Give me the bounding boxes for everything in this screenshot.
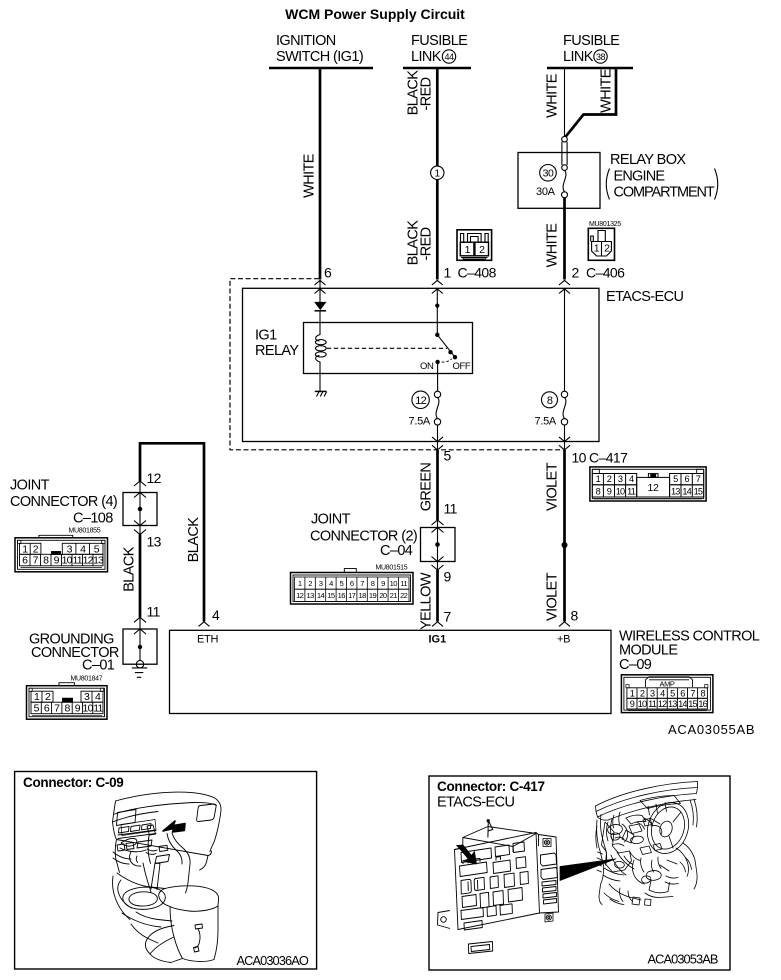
svg-text:ETACS-ECU: ETACS-ECU <box>606 289 683 305</box>
connector C-408 icon <box>457 230 492 260</box>
svg-text:10: 10 <box>572 450 587 466</box>
svg-text:8: 8 <box>371 579 375 588</box>
svg-text:44: 44 <box>444 52 454 62</box>
svg-text:8: 8 <box>596 487 601 497</box>
svg-text:4: 4 <box>629 474 634 484</box>
svg-text:AMP: AMP <box>659 679 674 688</box>
connector C-406 icon <box>588 228 614 260</box>
svg-text:21: 21 <box>390 591 398 600</box>
IG1 relay box <box>304 323 473 374</box>
wire bus bar IG1 <box>269 67 373 69</box>
svg-text:12: 12 <box>658 699 667 709</box>
svg-text:30: 30 <box>543 168 554 180</box>
svg-text:12: 12 <box>415 395 426 407</box>
svg-text:GREEN: GREEN <box>419 463 435 512</box>
svg-text:WCM Power Supply Circuit: WCM Power Supply Circuit <box>285 6 465 22</box>
svg-text:ACA03053AB: ACA03053AB <box>648 952 718 967</box>
fuse 30A <box>540 165 557 182</box>
svg-text:18: 18 <box>358 591 366 600</box>
svg-text:9: 9 <box>444 569 452 585</box>
svg-text:8: 8 <box>547 395 553 407</box>
svg-text:+B: +B <box>557 634 570 646</box>
svg-text:11: 11 <box>444 501 458 517</box>
panel Connector C-09 <box>15 772 317 970</box>
chevron end wire8 <box>559 622 570 627</box>
svg-text:12: 12 <box>296 591 304 600</box>
svg-text:1: 1 <box>596 474 601 484</box>
node circled 1 <box>431 166 444 179</box>
chevrons exiting box bottom wire10 <box>559 437 570 442</box>
svg-text:BLACK: BLACK <box>121 546 137 591</box>
svg-text:9: 9 <box>607 487 612 497</box>
chevron crossing wire6 at box top <box>315 289 326 294</box>
svg-text:ENGINE: ENGINE <box>614 169 666 185</box>
svg-text:VIOLET: VIOLET <box>544 572 560 621</box>
chevron crossing wire1 at dashed line <box>432 280 443 285</box>
svg-text:6: 6 <box>324 265 332 281</box>
fusible link symbol <box>562 136 568 142</box>
chevron crossing wire1 at box top <box>432 289 443 294</box>
svg-text:C–108: C–108 <box>73 511 113 527</box>
svg-text:10: 10 <box>638 699 647 709</box>
svg-text:14: 14 <box>317 591 325 600</box>
svg-text:WHITE: WHITE <box>544 223 560 268</box>
svg-text:7: 7 <box>360 579 364 588</box>
svg-text:LINK: LINK <box>563 49 594 65</box>
ground symbol <box>136 661 143 668</box>
svg-text:C–01: C–01 <box>82 658 115 674</box>
chevron end wire7 <box>432 622 443 627</box>
chevron crossing wire2 at dashed line <box>559 280 570 285</box>
svg-text:12: 12 <box>647 482 659 494</box>
svg-text:10: 10 <box>83 703 94 715</box>
svg-text:4: 4 <box>329 579 333 588</box>
wire bus bar FL44 <box>403 67 471 69</box>
svg-text:38: 38 <box>596 52 606 62</box>
svg-text:C–04: C–04 <box>380 543 413 559</box>
svg-text:16: 16 <box>698 699 707 709</box>
ETACS dashed boundary <box>230 279 563 450</box>
svg-text:ETH: ETH <box>197 634 218 646</box>
WCM box <box>170 630 612 713</box>
chevron crossing wire2 at box top <box>559 289 570 294</box>
svg-text:-RED: -RED <box>418 227 434 260</box>
wire VIOLET pin10 down <box>563 450 566 622</box>
svg-text:12: 12 <box>83 555 94 567</box>
svg-text:9: 9 <box>381 579 385 588</box>
svg-text:MU801515: MU801515 <box>376 565 408 572</box>
svg-text:5: 5 <box>670 688 675 698</box>
joint connector C-04 box <box>421 528 456 562</box>
svg-text:IGNITION: IGNITION <box>276 33 336 49</box>
connector C-108 icon <box>15 535 108 572</box>
svg-text:4: 4 <box>212 607 220 623</box>
svg-text:13: 13 <box>147 534 162 550</box>
chevron end wire4 <box>199 622 210 627</box>
svg-text:ACA03055AB: ACA03055AB <box>668 722 755 737</box>
svg-text:14: 14 <box>678 699 687 709</box>
svg-text:6: 6 <box>680 688 685 698</box>
svg-text:JOINT: JOINT <box>311 512 351 528</box>
svg-text:WHITE: WHITE <box>544 73 560 118</box>
svg-text:7: 7 <box>696 474 701 484</box>
svg-text:ETACS-ECU: ETACS-ECU <box>437 795 514 811</box>
svg-text:1: 1 <box>444 265 452 281</box>
svg-text:C–408: C–408 <box>458 265 497 281</box>
svg-text:WHITE: WHITE <box>598 68 614 113</box>
svg-text:7.5A: 7.5A <box>535 416 557 428</box>
grounding connector box <box>123 629 157 664</box>
svg-text:19: 19 <box>369 591 377 600</box>
svg-text:16: 16 <box>338 591 346 600</box>
svg-text:VIOLET: VIOLET <box>544 462 560 511</box>
svg-text:1: 1 <box>435 169 441 180</box>
relay coil <box>316 323 320 342</box>
svg-text:ON: ON <box>420 361 434 372</box>
panel Connector C-417 <box>429 776 730 970</box>
relay box (engine compartment) <box>518 153 600 209</box>
wire WHITE from ignition switch <box>319 68 322 280</box>
wire from relay ON to fuse 12 <box>437 362 439 391</box>
svg-text:11: 11 <box>93 703 103 715</box>
svg-text:3: 3 <box>319 579 323 588</box>
svg-text:WHITE: WHITE <box>301 153 317 198</box>
svg-text:15: 15 <box>688 699 697 709</box>
svg-text:8: 8 <box>700 688 705 698</box>
fuse 12 7.5A <box>434 391 440 397</box>
svg-text:MU801855: MU801855 <box>69 528 101 535</box>
svg-text:IG1: IG1 <box>429 634 447 646</box>
svg-text:10: 10 <box>62 555 73 567</box>
connector C-01 icon <box>27 683 108 720</box>
svg-text:ACA03036AO: ACA03036AO <box>237 953 309 968</box>
wire WHITE thin from fusible link 38 <box>564 68 566 136</box>
svg-text:11: 11 <box>400 579 407 588</box>
svg-text:6: 6 <box>684 474 689 484</box>
svg-text:11: 11 <box>627 487 636 497</box>
connector C-04 icon <box>291 569 414 605</box>
svg-text:7: 7 <box>444 609 452 625</box>
svg-text:1: 1 <box>298 579 302 588</box>
svg-text:RELAY BOX: RELAY BOX <box>610 152 686 168</box>
svg-text:2: 2 <box>640 688 645 698</box>
svg-text:8: 8 <box>571 608 579 624</box>
junction dot on violet wire <box>562 542 568 548</box>
svg-text:-RED: -RED <box>418 77 434 110</box>
chevron into grounding connector <box>134 617 146 622</box>
svg-text:C–09: C–09 <box>619 657 652 673</box>
svg-text:IG1: IG1 <box>255 328 277 344</box>
svg-text:22: 22 <box>400 591 408 600</box>
svg-text:14: 14 <box>682 487 691 497</box>
svg-text:4: 4 <box>660 688 665 698</box>
svg-text:6: 6 <box>350 579 354 588</box>
svg-text:17: 17 <box>348 591 356 600</box>
wire inside ECU from pin6 <box>319 280 321 302</box>
wire BLACK-RED from fusible link 44 <box>436 68 439 280</box>
svg-text:Connector: C-417: Connector: C-417 <box>437 779 545 794</box>
chevron into C-04 <box>432 520 444 525</box>
chevron out of C-04 <box>432 557 444 562</box>
svg-text:3: 3 <box>650 688 655 698</box>
joint connector C-108 box <box>123 493 157 526</box>
svg-text:12: 12 <box>147 470 162 486</box>
svg-text:OFF: OFF <box>453 361 471 372</box>
svg-text:2: 2 <box>308 579 312 588</box>
svg-text:5: 5 <box>444 448 452 464</box>
chevron crossing wire6 at dashed line <box>315 280 326 285</box>
relay ground <box>319 374 321 392</box>
svg-text:C–417: C–417 <box>589 450 628 466</box>
connector C-417 icon <box>590 467 706 501</box>
svg-text:1: 1 <box>630 688 635 698</box>
svg-text:20: 20 <box>379 591 387 600</box>
svg-text:Connector: C-09: Connector: C-09 <box>23 775 124 790</box>
svg-text:13: 13 <box>671 487 680 497</box>
ETACS solid box <box>243 288 600 441</box>
svg-text:BLACK: BLACK <box>186 517 202 562</box>
wire ETH U-shape left <box>140 443 204 621</box>
svg-text:13: 13 <box>93 555 104 567</box>
svg-text:30A: 30A <box>536 186 556 198</box>
svg-text:7.5A: 7.5A <box>409 416 431 428</box>
diode <box>315 302 326 309</box>
svg-text:7: 7 <box>690 688 695 698</box>
svg-text:COMPARTMENT: COMPARTMENT <box>614 185 715 201</box>
connector C-09 icon <box>621 675 713 713</box>
svg-text:C–406: C–406 <box>586 265 625 281</box>
svg-text:CONNECTOR (4): CONNECTOR (4) <box>10 494 117 510</box>
chevron into C-108 joint <box>134 481 146 486</box>
illustration car console C-09 <box>113 792 222 962</box>
svg-text:13: 13 <box>306 591 314 600</box>
relay switch <box>436 289 438 335</box>
svg-text:LINK: LINK <box>411 49 442 65</box>
wire GREEN pin5 down <box>436 450 439 520</box>
svg-text:11: 11 <box>648 699 657 709</box>
svg-text:9: 9 <box>630 699 635 709</box>
fuse 8 7.5A <box>561 391 567 397</box>
chevrons exiting box bottom wire5 <box>432 437 443 442</box>
svg-text:SWITCH (IG1): SWITCH (IG1) <box>276 49 363 65</box>
illustration dashboard C-417 <box>596 782 698 906</box>
wire BLACK down to grounding <box>139 535 142 618</box>
svg-text:MU801325: MU801325 <box>589 221 621 228</box>
svg-text:2: 2 <box>572 265 580 281</box>
svg-text:3: 3 <box>618 474 623 484</box>
wire WHITE below relay box <box>563 198 566 280</box>
chevron out of C-108 joint <box>134 521 146 526</box>
illustration ETACS-ECU unit <box>438 820 617 954</box>
svg-text:RELAY: RELAY <box>255 343 299 359</box>
wire WHITE thick elbow from fusible link 38 <box>566 68 617 137</box>
svg-text:MU801847: MU801847 <box>71 676 103 683</box>
svg-text:10: 10 <box>390 579 398 588</box>
relay dashed actuation line <box>327 347 447 349</box>
svg-text:FUSIBLE: FUSIBLE <box>411 33 468 49</box>
svg-text:JOINT: JOINT <box>10 478 50 494</box>
svg-text:13: 13 <box>668 699 677 709</box>
wire2 inside ECU <box>564 289 566 391</box>
svg-text:YELLOW: YELLOW <box>419 572 435 630</box>
wire YELLOW pin9 down <box>436 570 439 622</box>
svg-text:10: 10 <box>616 487 625 497</box>
svg-text:11: 11 <box>147 604 161 620</box>
wire bus bar FL38 <box>547 67 633 69</box>
svg-text:5: 5 <box>673 474 678 484</box>
svg-text:11: 11 <box>73 555 83 567</box>
svg-text:5: 5 <box>339 579 343 588</box>
svg-text:FUSIBLE: FUSIBLE <box>563 33 620 49</box>
svg-text:15: 15 <box>327 591 335 600</box>
svg-text:15: 15 <box>694 487 703 497</box>
svg-text:2: 2 <box>607 474 612 484</box>
